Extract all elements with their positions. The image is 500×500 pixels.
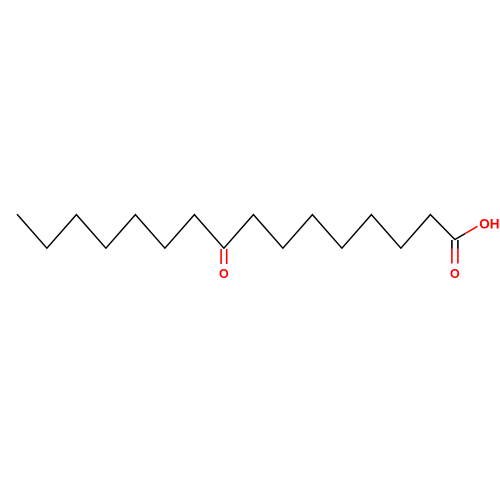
svg-text:OH: OH — [479, 216, 499, 231]
chain C16-C2 skeletal zigzag — [17, 215, 455, 249]
carboxyl C1=O double bond: red lower half — [451, 249, 453, 264]
C1-OH single bond: black half — [455, 234, 465, 240]
svg-text:O: O — [450, 267, 460, 281]
C1-OH single bond: red half — [465, 226, 477, 233]
carboxyl C1=O double bond: black upper half — [451, 240, 453, 249]
ketone C9=O double bond (red) — [220, 249, 222, 264]
svg-text:O: O — [219, 267, 229, 281]
